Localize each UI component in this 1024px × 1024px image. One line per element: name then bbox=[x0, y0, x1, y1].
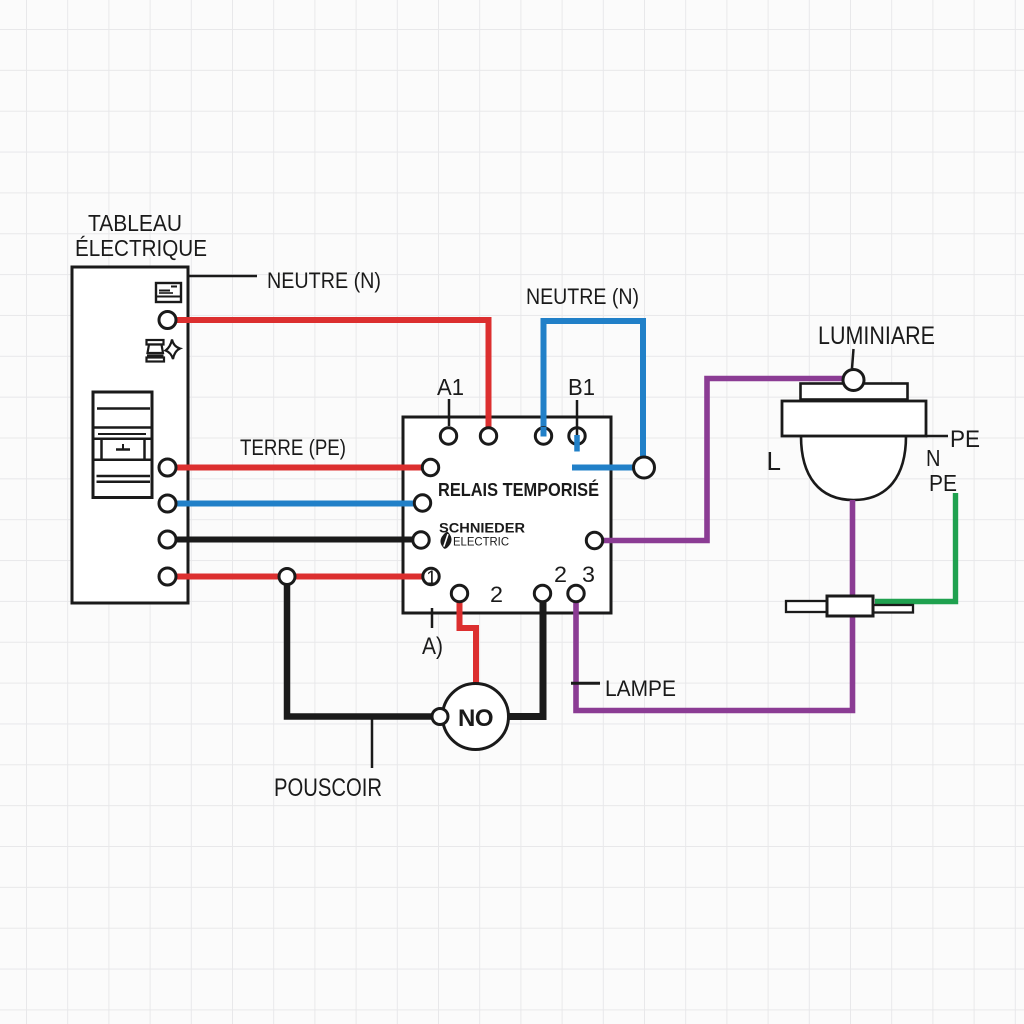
svg-text:A): A) bbox=[422, 633, 443, 660]
svg-text:TERRE (PE): TERRE (PE) bbox=[240, 435, 346, 460]
svg-text:RELAIS TEMPORISÉ: RELAIS TEMPORISÉ bbox=[438, 479, 599, 500]
svg-text:NEUTRE (N): NEUTRE (N) bbox=[526, 284, 639, 309]
svg-text:N: N bbox=[926, 445, 941, 471]
svg-text:LAMPE: LAMPE bbox=[605, 676, 676, 701]
svg-text:SCHNIEDER: SCHNIEDER bbox=[439, 521, 525, 536]
svg-text:1: 1 bbox=[426, 568, 437, 589]
svg-text:TABLEAU: TABLEAU bbox=[88, 210, 182, 236]
svg-text:PE: PE bbox=[929, 470, 957, 496]
svg-text:PE: PE bbox=[950, 426, 980, 453]
svg-text:A1: A1 bbox=[437, 374, 464, 400]
svg-text:ÉLECTRIQUE: ÉLECTRIQUE bbox=[75, 235, 207, 261]
svg-text:2: 2 bbox=[490, 582, 503, 607]
svg-text:LUMINIARE: LUMINIARE bbox=[818, 322, 935, 350]
svg-text:3: 3 bbox=[582, 562, 595, 587]
svg-text:POUSCOIR: POUSCOIR bbox=[274, 774, 382, 802]
svg-text:ELECTRIC: ELECTRIC bbox=[453, 535, 509, 549]
svg-text:2: 2 bbox=[554, 562, 567, 587]
svg-text:NO: NO bbox=[458, 705, 493, 732]
svg-text:NEUTRE (N): NEUTRE (N) bbox=[267, 268, 381, 293]
svg-text:B1: B1 bbox=[568, 374, 595, 400]
svg-text:L: L bbox=[767, 446, 781, 476]
